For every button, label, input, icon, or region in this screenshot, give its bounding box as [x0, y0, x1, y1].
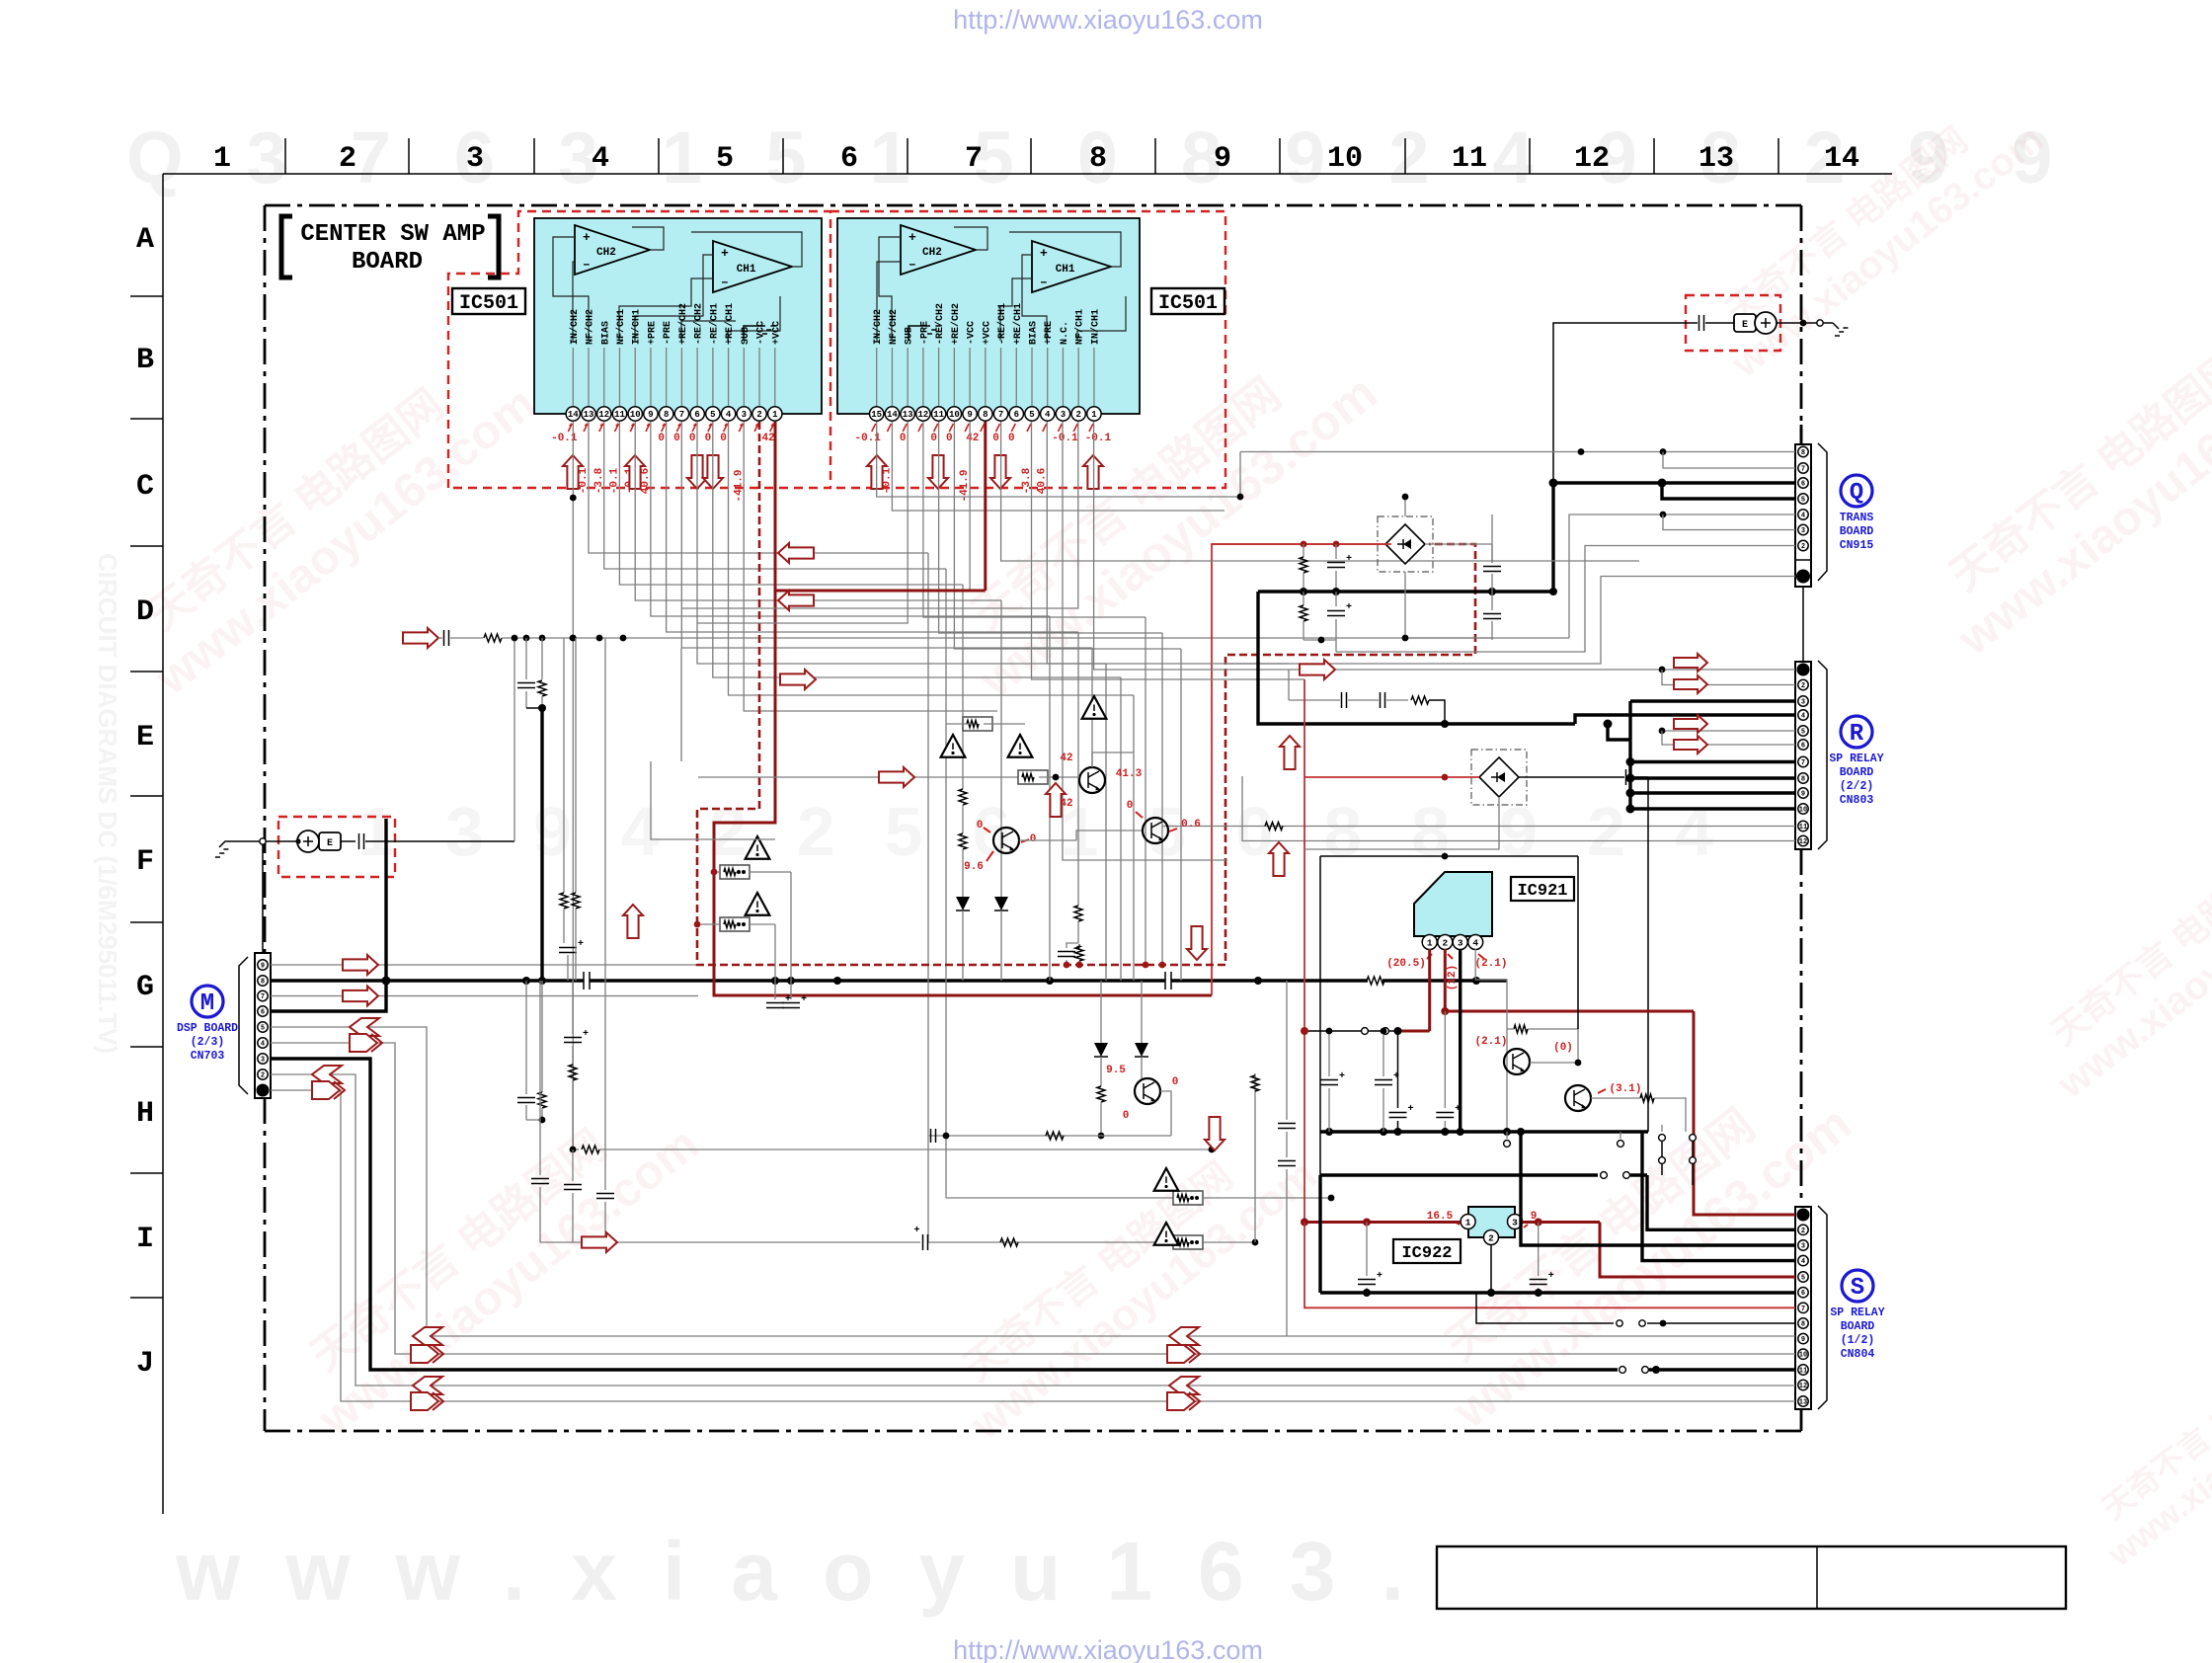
svg-text:13: 13 — [903, 410, 913, 420]
svg-text:14: 14 — [568, 410, 579, 420]
red pin ticks — [568, 424, 572, 432]
svg-text:8: 8 — [261, 979, 265, 987]
svg-text:0: 0 — [689, 433, 696, 444]
grid ruler top — [163, 173, 1892, 175]
svg-text:10: 10 — [1799, 807, 1807, 815]
svg-text:-RE/CH1: -RE/CH1 — [996, 303, 1008, 345]
svg-text:IC922: IC922 — [1401, 1244, 1452, 1263]
wire M p9 — [271, 964, 698, 966]
svg-text:-VCC: -VCC — [756, 321, 767, 345]
svg-text:2: 2 — [1801, 682, 1805, 690]
vertical right x1669 — [1647, 777, 1649, 1132]
svg-text:CN703: CN703 — [191, 1050, 225, 1063]
caps below cluster — [774, 924, 776, 999]
red arrows below IC501-2 — [867, 455, 887, 489]
svg-text:0: 0 — [1127, 800, 1134, 812]
red vertical x1321 — [1303, 679, 1305, 777]
svg-text:-0.1: -0.1 — [578, 467, 590, 494]
IC922 block — [1468, 1207, 1515, 1237]
wire to R p11 — [1162, 826, 1795, 828]
svg-text:I: I — [136, 1223, 154, 1256]
svg-text:(2/2): (2/2) — [1840, 780, 1874, 793]
vertical x549 lower — [541, 981, 543, 1092]
thick black H y599 — [1258, 590, 1553, 593]
svg-text:0.6: 0.6 — [1181, 819, 1201, 831]
IC2 p2 drop (cross link) — [681, 422, 1078, 608]
dark red H y1024 to right — [1445, 1010, 1694, 1013]
connector M strip — [255, 953, 271, 1098]
svg-text:8: 8 — [1801, 776, 1805, 784]
IC2 p14 drop — [892, 422, 1224, 511]
svg-text:NF/CH2: NF/CH2 — [585, 309, 596, 345]
dark red down to S p1 — [1694, 1011, 1795, 1215]
IC2 p5 drop — [1032, 422, 1305, 679]
gray line bridge1 bottom — [1404, 572, 1406, 638]
IC2 p15 drop — [877, 422, 1240, 497]
IC1 p7 drop — [681, 422, 1092, 648]
svg-text:3: 3 — [742, 410, 747, 420]
wire to Q p5 thick — [1658, 479, 1667, 488]
svg-text:8: 8 — [1089, 142, 1107, 176]
H y1044 with contacts — [1398, 1030, 1430, 1033]
verticals x547 x613 bottom-left — [539, 981, 541, 1175]
svg-text:+VCC: +VCC — [771, 321, 782, 345]
svg-text:7: 7 — [998, 410, 1003, 420]
svg-text:0: 0 — [673, 433, 680, 444]
main board border dash-dot — [265, 204, 1801, 207]
J row arrows left — [413, 1327, 442, 1345]
svg-text:10: 10 — [1799, 1352, 1807, 1360]
diode D (x1014) — [994, 897, 1008, 911]
svg-text:A: A — [136, 223, 154, 257]
svg-text:4: 4 — [261, 1041, 265, 1049]
svg-text:8: 8 — [1801, 449, 1805, 457]
svg-text:0: 0 — [992, 433, 999, 444]
svg-text:5: 5 — [1029, 410, 1034, 420]
J row arrows right — [1169, 1327, 1199, 1345]
op-amp CH1 (IC501-1) — [713, 241, 792, 292]
svg-text:CH2: CH2 — [922, 247, 942, 259]
svg-text:+: + — [583, 230, 591, 245]
connector S strip — [1795, 1207, 1811, 1409]
svg-text:E: E — [136, 721, 154, 754]
thick feeder into bus (y749) — [1608, 724, 1630, 740]
svg-text:8: 8 — [983, 410, 987, 420]
connector R pin1 — [1797, 664, 1810, 676]
IC1 p12 drop — [604, 422, 946, 569]
caps x1415 x1463 — [1397, 1031, 1399, 1108]
down arrow center — [1205, 1117, 1224, 1150]
svg-text:0: 0 — [1172, 1076, 1179, 1088]
IC921 block — [1414, 872, 1492, 936]
vertical x1092 with R, cap pair — [1077, 632, 1079, 906]
svg-text:IC921: IC921 — [1517, 882, 1567, 901]
svg-text:11: 11 — [1799, 1368, 1807, 1376]
svg-text:M: M — [200, 990, 214, 1017]
svg-text:SUB: SUB — [741, 327, 751, 345]
svg-text:(2/3): (2/3) — [191, 1036, 225, 1049]
svg-text:13: 13 — [1698, 142, 1734, 176]
dark red dashed path (-VCC) — [697, 422, 1475, 965]
svg-text:BIAS: BIAS — [1029, 321, 1040, 345]
svg-text:6: 6 — [261, 1009, 265, 1017]
svg-text:(1/2): (1/2) — [1841, 1334, 1875, 1347]
bottom H y1258 — [928, 1241, 1175, 1243]
svg-text:0: 0 — [1030, 833, 1037, 845]
svg-text:+RE/CH1: +RE/CH1 — [724, 303, 736, 345]
svg-text:B: B — [136, 344, 154, 377]
svg-text:+: + — [578, 939, 584, 950]
wire Q top — [1800, 425, 1803, 444]
wire bridge1 top — [1404, 497, 1406, 516]
IC2 p1 drop (to R p1 line) — [1094, 422, 1289, 670]
svg-text:12: 12 — [1799, 1383, 1807, 1390]
svg-text:9.6: 9.6 — [964, 861, 984, 873]
connector R strip — [1795, 662, 1811, 849]
red arrows below IC501-1 — [563, 455, 583, 489]
transistor Q (0/0.6) — [1143, 818, 1168, 843]
caps x1346 x1401 — [1328, 1031, 1330, 1076]
table bottom right — [1437, 1546, 2066, 1609]
svg-text:11: 11 — [1452, 142, 1487, 176]
svg-text:+: + — [1455, 1104, 1461, 1115]
red dashed box right IC501 — [830, 211, 1225, 488]
up arrow left cluster — [623, 905, 643, 938]
corner to S p2 — [1647, 1175, 1795, 1229]
warning triangles upper center — [941, 735, 966, 757]
IC2 p4 drop — [1047, 422, 1289, 664]
IC922 label — [1393, 1239, 1461, 1263]
IC501 block 2 — [837, 218, 1140, 414]
svg-text:8: 8 — [1801, 1321, 1805, 1329]
svg-text:IC501: IC501 — [1158, 292, 1218, 315]
svg-text:IN/CH2: IN/CH2 — [569, 309, 581, 345]
svg-text:IC501: IC501 — [459, 292, 518, 315]
diodes pair — [1100, 981, 1102, 1043]
wire M p7 — [271, 995, 698, 997]
svg-text:+: + — [1339, 1071, 1345, 1082]
connector Q strip — [1795, 444, 1811, 587]
IC1 pin drops — [572, 422, 574, 1149]
svg-text:13: 13 — [584, 410, 594, 420]
connector Q bracket — [1818, 443, 1827, 581]
series caps + resistor row (y709) — [1341, 692, 1343, 708]
IC1 p5 drop — [713, 422, 1121, 677]
svg-text:4: 4 — [1045, 410, 1051, 420]
svg-text:2: 2 — [1442, 937, 1448, 948]
IC501-2 internal wires — [877, 262, 901, 341]
IC2 p8 +VCC drop (dark red thick) — [984, 422, 987, 591]
caps x1303 — [1286, 981, 1288, 1120]
boxed resistor 2 — [720, 917, 750, 931]
center vertical x958 — [945, 569, 947, 1198]
svg-text:F: F — [136, 845, 154, 879]
svg-text:+: + — [908, 230, 916, 245]
svg-text:NF/CH1: NF/CH1 — [615, 309, 627, 345]
svg-text:IN/CH1: IN/CH1 — [1089, 309, 1101, 345]
svg-text:(20.5): (20.5) — [1386, 958, 1426, 970]
svg-text:(2.1): (2.1) — [1474, 958, 1507, 970]
thick black up corner — [1318, 1175, 1321, 1293]
IC1 p4 drop — [729, 422, 1135, 695]
svg-text:7: 7 — [679, 410, 684, 420]
IC921 label — [1511, 877, 1574, 901]
bridge rectifier D2 — [1471, 750, 1527, 805]
R p1 feeder vertical — [1288, 670, 1290, 700]
svg-text:+: + — [801, 994, 807, 1005]
svg-text:12: 12 — [598, 410, 609, 420]
svg-text:E: E — [1742, 320, 1748, 331]
svg-text:1: 1 — [213, 142, 231, 176]
boxed resistor 1 — [720, 865, 750, 879]
svg-text:+: + — [785, 994, 791, 1005]
svg-text:http://www.xiaoyu163.com: http://www.xiaoyu163.com — [953, 1635, 1263, 1663]
svg-text:6: 6 — [1801, 743, 1805, 751]
svg-text:+: + — [1040, 246, 1048, 261]
svg-text:(0): (0) — [1553, 1042, 1573, 1054]
IC501-1 pins — [572, 348, 574, 407]
dark red vertical to bridge1 — [1212, 544, 1391, 995]
svg-text:+: + — [1393, 1071, 1399, 1082]
svg-text:Q376315150892498299: Q376315150892498299 — [126, 117, 2115, 198]
svg-text:BIAS: BIAS — [600, 321, 611, 345]
svg-text:3: 3 — [1801, 527, 1805, 535]
E terminal lug top — [1734, 314, 1756, 332]
IC922 cap right — [1538, 1223, 1540, 1277]
svg-text:4: 4 — [1472, 937, 1478, 948]
svg-text:4: 4 — [726, 410, 732, 420]
bridge2 bottom — [1304, 797, 1499, 849]
ground inside IC501-2 — [908, 326, 930, 341]
svg-text:12: 12 — [1799, 838, 1807, 846]
svg-text:3: 3 — [1061, 410, 1066, 420]
svg-text:CH1: CH1 — [737, 264, 756, 276]
svg-text:7: 7 — [1801, 759, 1805, 767]
svg-text:42: 42 — [966, 433, 979, 444]
svg-text:(12): (12) — [1447, 965, 1459, 990]
svg-text:CH2: CH2 — [596, 247, 616, 259]
svg-text:0: 0 — [705, 433, 712, 444]
wire M p2 — [271, 1074, 1795, 1386]
svg-text:14: 14 — [887, 410, 898, 420]
wire to E terminal top — [1553, 323, 1644, 483]
H y1150 — [929, 1135, 1171, 1137]
IC501 block 1 — [534, 218, 822, 414]
svg-text:-VCC: -VCC — [967, 321, 978, 345]
svg-text:3: 3 — [1801, 1243, 1805, 1251]
red to S p5 — [1600, 1223, 1795, 1278]
svg-text:0: 0 — [930, 433, 937, 444]
transistor Q (42/41.3/42) — [1079, 767, 1105, 793]
connector M bracket — [239, 957, 248, 1094]
IC2 p3 drop — [1063, 422, 1227, 860]
svg-text:NF/CH1: NF/CH1 — [1074, 309, 1086, 345]
wire to R p12 — [1242, 776, 1795, 841]
wire to Q p6 thick — [1553, 481, 1795, 484]
wire to Q p7 — [1663, 452, 1795, 469]
wire to Q p1 via riser — [1225, 577, 1795, 665]
svg-text:10: 10 — [949, 410, 960, 420]
IC501-1 internal wires — [573, 262, 575, 341]
black H y867 over IC921 — [1319, 856, 1321, 1175]
svg-text:G: G — [136, 971, 154, 1004]
ground (E term left) — [215, 856, 220, 858]
svg-text:5: 5 — [716, 142, 734, 176]
IC921 pins — [1422, 935, 1437, 950]
svg-text:http://www.xiaoyu163.com: http://www.xiaoyu163.com — [953, 5, 1263, 35]
svg-text:+: + — [1346, 602, 1352, 613]
svg-text:9.5: 9.5 — [1106, 1065, 1126, 1076]
ground inside IC501-1 — [744, 326, 765, 341]
cap right of bridge2 — [1625, 769, 1627, 785]
IC1 p10 drop — [635, 422, 1001, 600]
IC2 p7 drop — [1001, 422, 1639, 561]
svg-text:NF/CH2: NF/CH2 — [888, 309, 900, 345]
svg-text:+RE/CH2: +RE/CH2 — [950, 303, 962, 345]
svg-text:9: 9 — [1214, 142, 1231, 176]
right arrows staircase — [780, 670, 816, 689]
IC922 pins — [1461, 1215, 1475, 1229]
svg-text:5: 5 — [1801, 497, 1805, 505]
bridge rectifier D1 — [1378, 516, 1433, 572]
wire to Q p3 stub — [1663, 515, 1795, 530]
thick corner x1274 — [1258, 592, 1575, 724]
svg-text:Q: Q — [1850, 480, 1863, 507]
dark red H to join — [775, 590, 986, 593]
ground (E term top) — [1833, 323, 1839, 329]
svg-text:TRANS: TRANS — [1840, 512, 1874, 524]
transistor (2.1)/(0) — [1504, 1049, 1530, 1074]
svg-text:1: 1 — [772, 410, 778, 420]
svg-text:11: 11 — [1799, 824, 1807, 831]
svg-text:–: – — [908, 257, 916, 272]
connector R label — [1841, 716, 1872, 748]
svg-text:4: 4 — [1801, 513, 1805, 520]
IC2 p12 drop — [923, 422, 1145, 617]
IC1 p11 drop — [619, 422, 963, 585]
IC501-2 pins — [876, 348, 878, 407]
transistor Q (9.5/0/0) — [1135, 1078, 1160, 1104]
svg-text:0: 0 — [720, 433, 727, 444]
svg-text:+: + — [1377, 1271, 1382, 1282]
svg-text:H: H — [136, 1097, 154, 1131]
svg-text:+: + — [1548, 1271, 1554, 1282]
thick feeder to R p4 — [1575, 715, 1795, 724]
wire E-left up — [513, 638, 515, 841]
svg-text:7: 7 — [261, 993, 265, 1001]
svg-text:42: 42 — [1060, 752, 1072, 764]
svg-text:DSP BOARD: DSP BOARD — [177, 1022, 238, 1035]
IC501 label left — [452, 288, 525, 314]
svg-text:2: 2 — [1488, 1232, 1494, 1243]
svg-text:9: 9 — [261, 963, 265, 971]
svg-text:1: 1 — [1091, 410, 1097, 420]
svg-text:CIRCUIT DIAGRAMS DC (1/6M29501: CIRCUIT DIAGRAMS DC (1/6M295011.TV) — [93, 553, 122, 1054]
svg-text:-0.1: -0.1 — [608, 467, 620, 494]
svg-text:3: 3 — [1801, 699, 1805, 707]
inline resistor on G bus — [1367, 977, 1384, 985]
R thick bus vertical — [1628, 701, 1631, 809]
wire to Q p4 via riser — [1569, 515, 1795, 638]
IC1 p3 SUB drop — [744, 422, 997, 711]
caps/res row 2 — [1303, 592, 1304, 605]
H y762 — [1092, 752, 1134, 753]
svg-text:+: + — [1346, 554, 1352, 565]
caps/res cluster left of bridge1 — [1212, 543, 1391, 545]
svg-text:15: 15 — [871, 410, 882, 420]
svg-text:14: 14 — [1824, 142, 1859, 176]
svg-text:10: 10 — [1327, 142, 1363, 176]
wire M p1 — [271, 1090, 1795, 1401]
IC921 pin1 wire (dark red) — [1428, 949, 1431, 1031]
resistor R (D row) — [484, 634, 502, 642]
wire to Q p2 via riser — [1335, 640, 1337, 652]
svg-text:CH1: CH1 — [1056, 264, 1075, 276]
svg-text:-3.8: -3.8 — [593, 467, 605, 494]
contact pairs right (relay) — [1659, 1135, 1666, 1142]
svg-text:9: 9 — [648, 410, 653, 420]
op-amp CH2 (IC501-2) — [901, 225, 976, 275]
svg-text:+PRE: +PRE — [1044, 321, 1055, 345]
connector Q label — [1841, 475, 1872, 507]
svg-text:+: + — [1407, 1104, 1413, 1115]
IC921 pin3 wire — [1459, 949, 1461, 1132]
svg-text:-0.1: -0.1 — [1085, 433, 1112, 444]
wire to R p3 thick + bus — [1630, 699, 1795, 702]
IC501 label right — [1151, 288, 1224, 314]
svg-text:-RE/CH1: -RE/CH1 — [708, 303, 720, 345]
watermark pink diagonals — [113, 335, 545, 705]
bottom H line with resistor (y1164) — [573, 1148, 579, 1150]
svg-text:5: 5 — [261, 1025, 265, 1033]
E terminal lug left — [297, 831, 319, 852]
connector R bracket — [1818, 661, 1827, 849]
thick vertical to G bus — [540, 708, 543, 981]
contacts below thick line — [1506, 1132, 1508, 1139]
IC922 pin2 down — [1490, 1245, 1492, 1293]
red wire into bridge2 — [1304, 776, 1479, 778]
wire M p5 — [271, 1027, 1795, 1336]
wire to Q p8 — [1240, 451, 1795, 453]
IC1 p9 drop — [651, 422, 1050, 616]
svg-text:CN915: CN915 — [1840, 539, 1874, 552]
svg-text:+: + — [913, 1226, 919, 1236]
diode D (x975) — [956, 897, 970, 911]
svg-text:BOARD: BOARD — [1840, 766, 1874, 779]
wire M top — [262, 844, 264, 953]
svg-text:-RE/CH2: -RE/CH2 — [934, 303, 946, 345]
svg-text:BOARD: BOARD — [1840, 525, 1874, 538]
svg-text:-PRE: -PRE — [663, 321, 673, 345]
wire M p6 thick — [271, 819, 386, 1011]
red dashed box left IC501 — [448, 211, 830, 488]
svg-text:+RE/CH1: +RE/CH1 — [1012, 303, 1024, 345]
transistor Q (0/0/9.6) — [993, 828, 1019, 853]
svg-text:0: 0 — [658, 433, 665, 444]
svg-text:3: 3 — [1512, 1217, 1518, 1227]
svg-text:1: 1 — [1465, 1217, 1471, 1227]
svg-text:SP RELAY: SP RELAY — [1829, 752, 1883, 765]
bridge2 right wire — [1519, 776, 1624, 778]
svg-text:2: 2 — [1801, 1227, 1805, 1235]
warning triangle 1 — [746, 836, 770, 859]
dark red solid power path (IC1 +VCC) — [714, 422, 1212, 995]
svg-text:+RE/CH2: +RE/CH2 — [677, 303, 689, 345]
svg-text:6: 6 — [840, 142, 858, 176]
black H y1044 extension left — [1326, 1028, 1333, 1035]
svg-text:1: 1 — [1427, 937, 1433, 948]
svg-text:7: 7 — [965, 142, 983, 176]
